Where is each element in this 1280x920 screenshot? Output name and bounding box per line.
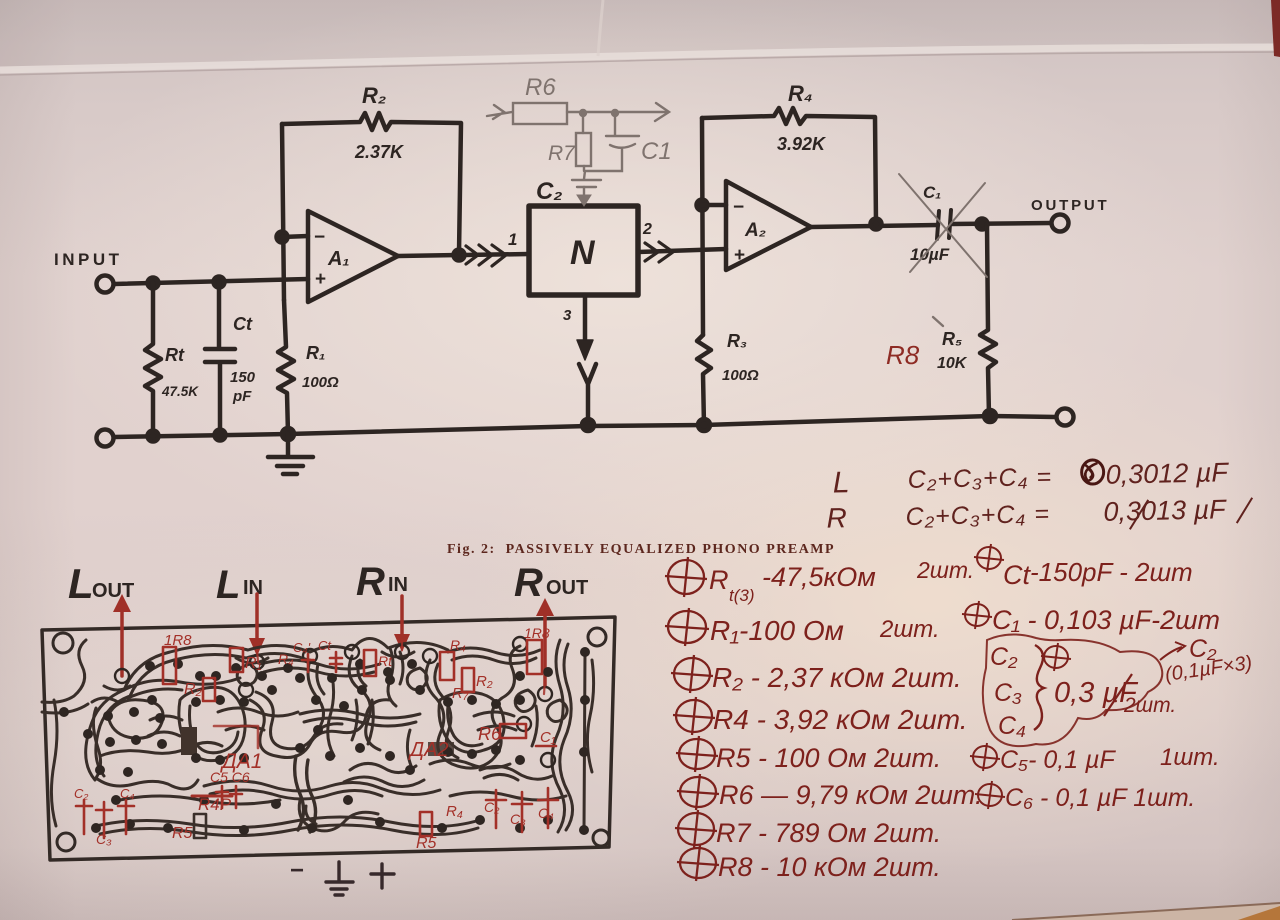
svg-text:C1: C1 <box>641 138 672 165</box>
svg-text:100Ω: 100Ω <box>302 374 339 391</box>
wire A2 feedback left vertical <box>702 118 703 335</box>
svg-text:R₇: R₇ <box>452 685 469 702</box>
svg-text:C₅- 0,1 µF: C₅- 0,1 µF <box>1000 746 1116 774</box>
wire trace left edge vertical <box>51 700 57 826</box>
op-amp A1 <box>308 211 398 302</box>
pad mid column <box>312 696 321 705</box>
wire A1 minus input <box>282 236 308 237</box>
node output junction <box>977 219 988 230</box>
node bottom input terminal <box>97 430 114 447</box>
wire trace right edge channel <box>552 640 565 832</box>
arrow L out (red) <box>120 608 124 676</box>
svg-text:1R8: 1R8 <box>164 632 192 649</box>
block N <box>529 206 638 295</box>
node rail junctions <box>148 431 159 442</box>
svg-text:R5 - 100 Ом 2шт.: R5 - 100 Ом 2шт. <box>716 743 941 773</box>
svg-text:R₂: R₂ <box>362 83 386 108</box>
svg-text:R₂ - 2,37 кОм 2шт.: R₂ - 2,37 кОм 2шт. <box>712 662 962 693</box>
resistor R4 pcb right <box>440 652 454 680</box>
svg-text:R: R <box>709 565 729 595</box>
node pencil junction R7 <box>580 110 586 116</box>
svg-text:C₂+C₃+C₄ =: C₂+C₃+C₄ = <box>905 500 1050 531</box>
wire trace top left runs <box>124 678 240 698</box>
paper edge bottom right + wood table corner <box>1012 903 1280 920</box>
resistor Rt pcb <box>364 650 376 676</box>
wire trace upper connects <box>388 648 403 706</box>
svg-text:C₁: C₁ <box>540 729 556 746</box>
svg-text:R: R <box>356 560 385 604</box>
wire trace bottom long2 <box>100 825 478 836</box>
svg-text:C₂: C₂ <box>536 178 562 205</box>
wire trace around IC A1 <box>179 687 245 760</box>
svg-text:R₁: R₁ <box>245 655 262 672</box>
wire A2 minus input <box>702 203 726 208</box>
wire trace mid fills <box>218 708 516 730</box>
svg-text:R5: R5 <box>416 835 437 852</box>
wire R6 to arrow out <box>567 103 669 121</box>
BOM item R_t <box>665 557 707 597</box>
resistor R1 pcb <box>230 648 243 672</box>
resistor R6 (pencil box) <box>513 103 567 124</box>
wire trace left mid fills <box>92 698 182 736</box>
svg-text:R₄: R₄ <box>450 637 466 653</box>
wire trace bottom long <box>96 817 480 828</box>
capacitor C1 (pencil) <box>584 113 639 179</box>
svg-text:L: L <box>68 560 94 607</box>
svg-text:+: + <box>315 269 326 290</box>
IC A2 dark body <box>428 742 454 756</box>
svg-text:C₄: C₄ <box>538 805 554 821</box>
svg-text:C​t: C​t <box>233 314 253 334</box>
svg-text:150: 150 <box>230 369 256 386</box>
wire trace right cluster box <box>439 692 504 752</box>
wire to N pin 1 <box>464 254 529 255</box>
node Y connector below N <box>579 364 596 425</box>
svg-text:Fig. 2: PASSIVELY EQUALIZED P: Fig. 2: PASSIVELY EQUALIZED PHONO PREAMP <box>447 542 835 557</box>
svg-text:R₄: R₄ <box>788 81 813 106</box>
svg-text:R₁: R₁ <box>306 343 325 363</box>
pad IC A2 rows <box>444 698 453 707</box>
svg-text:R​t: R​t <box>165 345 185 365</box>
capacitor Ct <box>205 282 235 435</box>
BOM item C1 <box>962 601 992 629</box>
wire trace mid small loops <box>237 664 427 690</box>
mounting hole BR <box>593 830 609 846</box>
node input terminal <box>97 276 114 293</box>
svg-text:C₂: C₂ <box>990 643 1018 671</box>
svg-text:ДA2: ДA2 <box>408 739 449 761</box>
BOM item R6 <box>677 774 719 810</box>
svg-text:R7: R7 <box>548 142 576 165</box>
BOM item R1 <box>665 608 709 646</box>
wire trace loops small right <box>515 690 567 722</box>
BOM item R4 <box>673 697 715 735</box>
resistor R7 (pencil box) <box>582 113 584 133</box>
wire trace center drop <box>308 660 324 730</box>
wire pencil input arrow to R6 <box>487 105 512 119</box>
wire trace center knot <box>344 763 424 786</box>
svg-text:R₃: R₃ <box>727 331 747 351</box>
loop around C2C3C4 <box>983 634 1162 746</box>
svg-text:1: 1 <box>508 230 517 249</box>
resistor 1R8 right <box>527 640 542 674</box>
svg-text:C5 C6: C5 C6 <box>210 769 250 785</box>
ground below board <box>290 857 394 895</box>
pad row left column <box>104 712 113 721</box>
svg-text:INPUT: INPUT <box>54 250 123 269</box>
svg-text:R8 - 10 кОм 2шт.: R8 - 10 кОм 2шт. <box>718 852 941 882</box>
resistor R2 left <box>203 678 215 701</box>
svg-text:C​t: C​t <box>318 638 332 653</box>
resistor Rt <box>145 283 161 436</box>
wire trace center long <box>204 781 440 795</box>
wire input rail to A1 + <box>114 279 308 284</box>
capacitor Ct pcb left <box>330 652 342 672</box>
wire trace midband extra <box>352 700 537 768</box>
node A1 inverting input junction <box>277 232 288 243</box>
svg-text:C₁ - 0,103 µF-2шт: C₁ - 0,103 µF-2шт <box>992 605 1220 635</box>
wire trace center thick verticals <box>295 756 316 832</box>
wire trace right vertical pair <box>584 652 594 830</box>
wire R4 feedback top <box>702 108 876 224</box>
resistor 1R8 left <box>163 647 176 684</box>
IC A1 dark body <box>181 727 197 755</box>
wire trace right big loop <box>426 646 520 768</box>
scribble blob <box>1081 460 1103 484</box>
arrow L in (red) <box>255 594 259 642</box>
pad IC A1 rows <box>192 698 201 707</box>
BOM item C6 <box>975 781 1005 809</box>
wire trace right loop inner <box>435 664 458 758</box>
capacitor C1 output <box>937 210 951 239</box>
wire trace left cluster U <box>100 742 222 756</box>
pad rings <box>115 637 555 767</box>
pad extra dots <box>148 696 157 705</box>
wire trace under input arrows <box>104 652 414 690</box>
node junction input-Ct <box>214 277 225 288</box>
node bottom output terminal <box>1057 409 1074 426</box>
node A2 output junction <box>871 219 882 230</box>
svg-text:100Ω: 100Ω <box>722 367 759 384</box>
arrow to C2 <box>1160 642 1185 660</box>
svg-text:R₄: R₄ <box>446 803 463 820</box>
svg-text:R6 — 9,79 кОм 2шт.: R6 — 9,79 кОм 2шт. <box>719 780 982 810</box>
pad top row left <box>146 662 155 671</box>
capacitor group C2 C3 C4 right bottom <box>486 788 558 832</box>
resistor R5 <box>980 224 996 416</box>
svg-text:C₆ - 0,1 µF 1шт.: C₆ - 0,1 µF 1шт. <box>1005 784 1195 812</box>
svg-text:0,3013 µF: 0,3013 µF <box>1103 494 1227 527</box>
svg-text:(0,1µF×3): (0,1µF×3) <box>1164 652 1254 686</box>
svg-text:R₂: R₂ <box>184 681 202 698</box>
pad right column <box>581 648 590 657</box>
PCB board outline <box>42 617 615 860</box>
svg-text:t(3): t(3) <box>729 586 755 605</box>
svg-text:R₅: R₅ <box>942 329 962 349</box>
svg-text:C₃: C₃ <box>510 811 526 827</box>
wire trace right edge channel2 <box>560 644 573 830</box>
svg-text:2шт.: 2шт. <box>916 557 974 583</box>
BOM item R2 <box>671 655 713 693</box>
wire trace mid verticals <box>328 676 412 768</box>
svg-text:2шт.: 2шт. <box>1123 694 1176 717</box>
svg-text:C​t: C​t <box>1003 560 1031 590</box>
svg-text:3: 3 <box>563 307 572 324</box>
wire trace center S2 <box>256 692 342 749</box>
svg-text:1R8: 1R8 <box>524 625 550 641</box>
svg-text:IN: IN <box>243 577 263 599</box>
node output terminal <box>1052 215 1069 232</box>
pencil tick near R5 <box>933 317 943 326</box>
svg-text:OUT: OUT <box>546 577 588 599</box>
wire trace center long2 <box>210 790 382 799</box>
arrow R in (red) <box>400 596 404 638</box>
wire trace bottom center U <box>299 800 378 831</box>
wire C1 to output terminal <box>951 223 1051 224</box>
svg-text:R5: R5 <box>172 825 193 842</box>
svg-text:R7 - 789 Ом 2шт.: R7 - 789 Ом 2шт. <box>716 818 941 848</box>
pin 3 arrow below N <box>583 295 588 348</box>
node A2 inverting junction <box>697 200 708 211</box>
node junction input-Rt <box>148 278 159 289</box>
svg-text:C₃: C₃ <box>994 679 1022 707</box>
BOM item C5 <box>970 743 1000 771</box>
capacitor group C2 C3 C4 left bottom <box>76 800 134 838</box>
mounting hole BL <box>57 833 75 851</box>
svg-text:-150pF - 2шт: -150pF - 2шт <box>1030 557 1193 587</box>
svg-text:R8: R8 <box>886 340 920 370</box>
wire trace mid right arc <box>349 656 380 750</box>
svg-text:C₂+C₃+C₄ =: C₂+C₃+C₄ = <box>907 463 1052 494</box>
arrows N to A2 <box>645 242 673 262</box>
BOM item R7 <box>675 810 717 848</box>
wire trace big left loop <box>86 638 448 780</box>
svg-text:C₂: C₂ <box>484 799 500 815</box>
wire trace big left loop inner <box>96 653 308 776</box>
arrow R out (red) <box>543 612 547 686</box>
wire trace top right run <box>448 648 540 664</box>
svg-text:1шт.: 1шт. <box>1160 744 1220 771</box>
svg-text:OUTPUT: OUTPUT <box>1031 197 1109 214</box>
wire A2 output <box>811 225 938 227</box>
mounting hole TR <box>588 628 606 646</box>
svg-text:R6: R6 <box>478 724 502 744</box>
wire trace left inner loop <box>108 700 163 738</box>
svg-text:R₄: R₄ <box>278 651 294 667</box>
svg-text:L: L <box>832 466 849 499</box>
pencil cross over C1 <box>899 174 987 277</box>
wire N pin 2 to A2 + <box>638 249 726 252</box>
svg-text:C₃: C₃ <box>96 831 112 847</box>
mounting hole TL <box>53 633 73 653</box>
svg-text:R: R <box>826 502 847 533</box>
svg-text:OUT: OUT <box>92 580 134 602</box>
wire ground rail <box>114 416 1056 437</box>
svg-text:C₄: C₄ <box>998 712 1026 740</box>
wire trace IC A1 inner <box>190 706 239 753</box>
svg-text:C₂: C₂ <box>74 786 88 801</box>
wire R2 feedback top <box>282 113 461 253</box>
background table: maroon sliver top-right <box>1271 0 1280 57</box>
wire trace bottom sweep <box>120 792 566 804</box>
ground pencil into N <box>572 180 601 187</box>
svg-text:R: R <box>514 561 543 605</box>
wire trace left pads outline <box>93 708 198 789</box>
BOM item R8 <box>677 845 719 881</box>
node pencil junction C1 <box>612 110 618 116</box>
wire A1 feedback left vertical <box>282 124 284 300</box>
pad bottom row <box>92 824 101 833</box>
wire trace top mid connects <box>260 660 380 676</box>
BOM item C_t <box>974 544 1004 572</box>
wire trace right cluster inner <box>448 706 482 746</box>
svg-text:+: + <box>734 245 745 266</box>
wire A1 output <box>398 255 459 256</box>
svg-text:pF: pF <box>232 388 252 405</box>
svg-text:R4 - 3,92 кОм 2шт.: R4 - 3,92 кОм 2шт. <box>713 704 968 735</box>
svg-text:R​t: R​t <box>378 653 393 669</box>
svg-text:R₂: R₂ <box>476 673 493 690</box>
wire trace TL corner region <box>42 640 88 713</box>
op-amp A2 <box>726 181 811 270</box>
arrows A1 to N <box>466 245 506 266</box>
wire trace center S <box>250 700 390 758</box>
wire trace mid horizontal pair <box>300 710 420 726</box>
svg-text:−: − <box>314 227 325 248</box>
svg-text:IN: IN <box>388 574 408 596</box>
svg-text:-47,5кОм: -47,5кОм <box>762 562 876 592</box>
svg-text:A₁: A₁ <box>327 248 349 270</box>
svg-text:2: 2 <box>642 221 652 238</box>
svg-text:10K: 10K <box>937 355 968 372</box>
svg-text:R6: R6 <box>525 74 556 101</box>
svg-text:47.5K: 47.5K <box>161 384 199 399</box>
paper crease top <box>0 0 1280 69</box>
svg-text:R₁-100 Ом: R₁-100 Ом <box>710 615 844 646</box>
wire red stubs <box>257 640 545 694</box>
resistor R2 right <box>462 668 474 692</box>
resistor R3 <box>697 335 711 426</box>
BOM item R5 <box>676 736 718 772</box>
svg-text:C₄: C₄ <box>120 786 135 801</box>
svg-text:3.92K: 3.92K <box>777 134 827 154</box>
svg-text:C₁: C₁ <box>923 183 941 202</box>
svg-text:0,3012 µF: 0,3012 µF <box>1105 457 1229 490</box>
resistor R1 <box>278 300 294 434</box>
svg-text:L: L <box>216 563 240 607</box>
ground <box>268 434 313 474</box>
node A1 output junction <box>454 250 465 261</box>
svg-text:−: − <box>290 857 304 884</box>
svg-text:R4P: R4P <box>198 795 232 814</box>
svg-text:A₂: A₂ <box>744 220 766 241</box>
wire trace bottom right hook <box>480 766 552 780</box>
svg-text:N: N <box>570 234 596 272</box>
svg-text:2шт.: 2шт. <box>879 616 940 643</box>
svg-text:2.37K: 2.37K <box>354 142 405 162</box>
svg-text:−: − <box>733 197 744 218</box>
